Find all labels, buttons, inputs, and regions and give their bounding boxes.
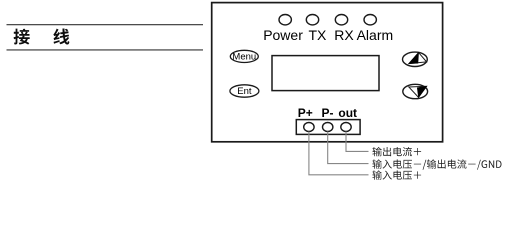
heading 接 xyxy=(14,29,30,45)
svg-text:Power: Power xyxy=(263,27,303,43)
terminal block xyxy=(296,120,360,135)
label 输入电压+ xyxy=(372,170,421,179)
rule below heading xyxy=(7,49,204,51)
svg-text:out: out xyxy=(338,106,357,120)
svg-text:TX: TX xyxy=(309,27,328,43)
wire P- xyxy=(328,132,369,164)
svg-text:Ent: Ent xyxy=(237,86,252,97)
terminal 3 out xyxy=(341,123,351,132)
LED TX xyxy=(306,15,318,25)
wire out xyxy=(346,132,369,152)
button Ent xyxy=(230,85,259,97)
LCD display xyxy=(272,56,379,91)
svg-text:P-: P- xyxy=(322,106,334,120)
wire P+ xyxy=(309,132,369,175)
label 输入电压-/输出电流-/GND xyxy=(372,159,501,169)
device panel outline xyxy=(212,3,443,142)
svg-text:Menu: Menu xyxy=(232,52,256,63)
LED RX xyxy=(335,15,347,25)
svg-text:RX: RX xyxy=(334,27,354,43)
terminal 2 P- xyxy=(323,123,333,132)
svg-text:P+: P+ xyxy=(298,106,313,120)
rule above heading xyxy=(7,24,204,26)
LED Power xyxy=(279,15,291,25)
button Menu xyxy=(230,50,258,62)
terminal 1 P+ xyxy=(304,123,314,132)
label 输出电流+ xyxy=(372,147,421,156)
svg-text:Alarm: Alarm xyxy=(357,27,394,43)
button Down xyxy=(403,84,428,98)
heading 线 xyxy=(53,29,69,45)
button Up xyxy=(403,52,428,66)
LED Alarm xyxy=(364,15,376,25)
